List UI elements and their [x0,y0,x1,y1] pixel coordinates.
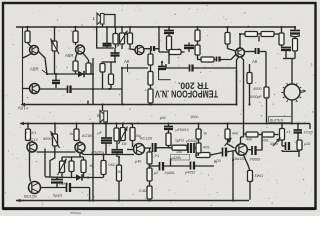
top supply rail [16,26,296,28]
svg-text:5000: 5000 [43,137,51,141]
resistor R1 [25,27,31,47]
svg-text:B: B [97,113,100,118]
capacitor C20 [164,127,189,134]
wire y62 link [102,61,117,63]
wire emitter drop1 [237,57,240,105]
svg-text:1k: 1k [203,132,207,136]
wire node D [265,52,267,88]
svg-text:μ4052: μ4052 [185,171,195,175]
label uW [160,116,166,120]
resistor R35 [297,140,311,150]
wire collector [240,34,245,48]
wire out row [244,133,246,135]
resistor R11 [201,57,216,62]
capacitor C9 [184,43,194,53]
resistor R22 [114,124,127,146]
svg-text:≠1: ≠1 [287,130,291,134]
label 100n [190,115,198,119]
resistor R40 [116,157,122,201]
resistor R17 [264,87,269,124]
svg-text:J*1: J*1 [154,154,160,158]
capacitor C11 [190,65,237,72]
capacitor C16 [112,141,124,157]
svg-text:μΩ10μF: μΩ10μF [186,139,198,143]
capacitor C19 [171,155,218,175]
svg-text:£WΩ: £WΩ [255,174,264,178]
long vertical bus [92,58,94,201]
trimmer P5 volume [273,124,290,147]
resistor R21 [69,124,79,141]
label 4000 [249,87,263,99]
resistor R34 [258,132,279,143]
stray mark [70,212,81,214]
svg-text:μ42δb: μ42δb [172,156,182,160]
capacitor C21 stack [186,139,199,153]
capacitor C22 [196,148,235,157]
capacitor C2 [52,74,60,88]
svg-text:400L: 400L [261,139,269,143]
svg-text:K1: K1 [32,130,38,135]
wire bottom cluster [283,59,295,85]
wire Q9 collector [241,137,244,145]
wire row y154 [80,153,134,155]
wire emitter row [40,88,68,90]
trimmer P4 [119,124,128,145]
label u40 [135,160,141,164]
trimmer P2 [118,27,128,49]
speaker LS2 mic [97,105,107,124]
transistor Q9 [235,144,248,161]
resistor R12 [225,27,236,51]
wire emitter drop2 [241,57,244,137]
resistor R6 [128,27,136,50]
transistor Q7 [75,134,94,153]
wire R32 drop [228,139,235,148]
wire node E [121,68,123,105]
transistor Q1 [23,46,48,75]
resistor R14 [258,32,280,37]
wire bottom right [282,150,300,157]
resistor R23 [130,124,141,148]
wire Q6 emitter [30,151,31,182]
left bus wire [22,27,24,104]
svg-text:1k: 1k [69,131,73,136]
resistor R42 [109,62,114,89]
svg-text:BUITEN: BUITEN [270,119,284,123]
wire drop x233 [232,152,234,201]
capacitor C3 [68,86,123,94]
capacitor C6 [144,46,159,51]
svg-text:≠MPE: ≠MPE [59,182,69,186]
capacitor C26 [51,178,69,188]
capacitor C12 electrolytic [290,27,300,39]
trimmer P1 [51,27,60,74]
svg-text:μ2: μ2 [154,171,158,175]
transistor Q2 [76,45,89,63]
title TEMPOFOON.NV [155,88,218,99]
capacitor C8 [158,62,166,69]
ground rail bottom [16,199,249,203]
svg-text:AC12B: AC12B [140,137,152,141]
svg-text:40k: 40k [246,138,252,142]
wire Q9 emitter [243,155,250,171]
svg-text:μΩ3: μΩ3 [214,159,221,163]
svg-text:μ2Ω: μ2Ω [304,142,311,146]
resistor chain R43 [148,49,153,65]
svg-text:J*μ66L: J*μ66L [164,171,175,175]
resistor R36 [248,171,264,200]
resistor chain R45 [148,85,153,105]
capacitor C10 [217,55,236,62]
capacitor C27 [53,183,90,201]
trimmer P3 [43,124,60,177]
resistor R39 [101,155,115,178]
resistor R37 [69,157,74,178]
dial symbol M1 [281,82,306,124]
svg-text:≇5μ50n: ≇5μ50n [91,151,104,155]
svg-text:μ40: μ40 [135,160,141,164]
transistor Q4 [135,46,144,55]
wire base row [37,151,76,153]
svg-text:5μ/μ5: 5μ/μ5 [53,194,62,198]
svg-text:4000: 4000 [253,87,261,91]
transistor Q6 [27,138,38,152]
resistor R8 [159,50,185,55]
label ASR pointer [30,53,74,74]
resistor chain R44 [148,65,153,85]
resistor R38 [81,157,94,178]
svg-text:A5Ln: A5Ln [270,142,278,146]
resistor chain R26 [139,181,152,201]
transistor Q5 [236,48,245,57]
wire Q8 out [145,147,152,149]
wire mid link [166,64,189,68]
capacitor C25 [294,124,313,141]
svg-text:1μFΩ: 1μFΩ [175,139,184,143]
capacitor C4 [103,27,112,48]
wire L-link [97,27,114,48]
resistor chain R25 [147,164,158,181]
svg-text:A5R: A5R [30,67,39,72]
resistor R4 [86,63,91,74]
resistor R2 [73,27,78,45]
wire Q10 out [41,187,66,189]
capacitor C15 [98,124,113,155]
svg-text:μF50/10: μF50/10 [176,128,189,132]
resistor R15 [279,27,284,45]
wire top row [62,153,84,158]
resistor R27 [166,133,184,148]
resistor R33 [246,132,258,142]
resistor R29 [196,153,221,164]
label 50n [91,151,104,155]
transistor Q10 [24,182,41,199]
resistor R13 [245,32,258,37]
svg-text:4000pF: 4000pF [249,95,263,99]
resistor R31 [196,139,209,153]
resistor R30 [196,124,207,140]
resistor R41 [100,64,105,90]
trimmer P6 [58,157,67,178]
resistor R16 [293,39,298,59]
stub node C [258,36,260,42]
svg-text:μW: μW [160,116,166,120]
resistor R7 [167,36,172,64]
label +10V [17,106,29,111]
resistor R9 [195,27,200,45]
svg-text:BΩ12B: BΩ12B [24,194,37,199]
svg-text:A5R: A5R [65,53,74,58]
vert chain [168,124,170,127]
diode D2 [45,174,104,180]
diode D1 [78,71,93,77]
svg-text:100n: 100n [190,115,198,119]
capacitor C5 [111,48,120,62]
lower rail [20,122,311,129]
resistor chain R24 [147,148,160,164]
svg-text:A9: A9 [252,59,258,64]
capacitor C13 [281,45,291,59]
svg-text:405: 405 [203,146,209,150]
svg-text:J≠100: J≠100 [304,131,313,135]
capacitor C18 [150,159,191,176]
capacitor C23 [247,137,262,162]
svg-text:062: 062 [109,163,115,167]
label 49 [252,59,258,64]
resistor R5 [113,27,118,48]
capacitor C14 [245,48,267,54]
label A8 [124,59,130,72]
transistor Q3 [23,84,40,94]
svg-text:1M: 1M [122,142,127,146]
svg-text:40k: 40k [232,132,238,136]
svg-text:D8: D8 [116,170,121,174]
svg-text:J*6660: J*6660 [249,158,260,162]
svg-text:C4Ω: C4Ω [139,189,147,193]
transistor Q8 [127,137,152,155]
svg-text:Λ8: Λ8 [124,59,130,64]
wire base node A [47,73,78,75]
label BUITEN [269,117,293,123]
resistor R20 [26,124,38,141]
svg-text:AC1Y: AC1Y [28,138,38,142]
resistor R18 [247,64,252,105]
wire vertical node B [158,27,160,52]
resistor R32 [225,124,239,147]
svg-text:+10V: +10V [17,106,29,111]
title TR 200 [178,80,209,90]
speaker LS1 [93,13,116,27]
resistor R28 [172,145,187,154]
capacitor C7 [164,27,174,36]
capacitor C17 [153,143,173,152]
+V rail [21,70,237,106]
resistor R10 [195,45,201,60]
wire y68 link [122,67,148,69]
resistor R3 [73,61,78,74]
component box [159,70,171,80]
capacitor C24 [270,140,289,150]
svg-text:AC1B7: AC1B7 [82,134,94,138]
